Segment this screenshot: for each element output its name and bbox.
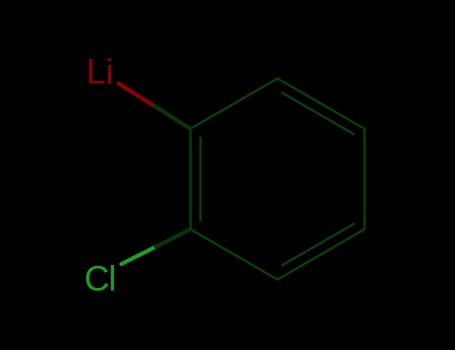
svg-text:Li: Li: [86, 53, 113, 92]
double bond inner line C1-C2 (left edge): [199, 137, 201, 222]
svg-text:Cl: Cl: [84, 260, 115, 299]
bond Cl-C2 : carbon half: [156, 229, 191, 246]
bond Li-C1 : lithium half: [119, 83, 155, 106]
double bond inner line C5-C6 (bottom-right edge): [281, 223, 355, 265]
bond Li-C1 : carbon half: [155, 106, 191, 129]
bond Cl-C2 : chlorine half: [121, 247, 156, 264]
benzene ring outline: [191, 79, 365, 280]
double bond inner line C3-C4 (top-right edge): [281, 92, 355, 134]
